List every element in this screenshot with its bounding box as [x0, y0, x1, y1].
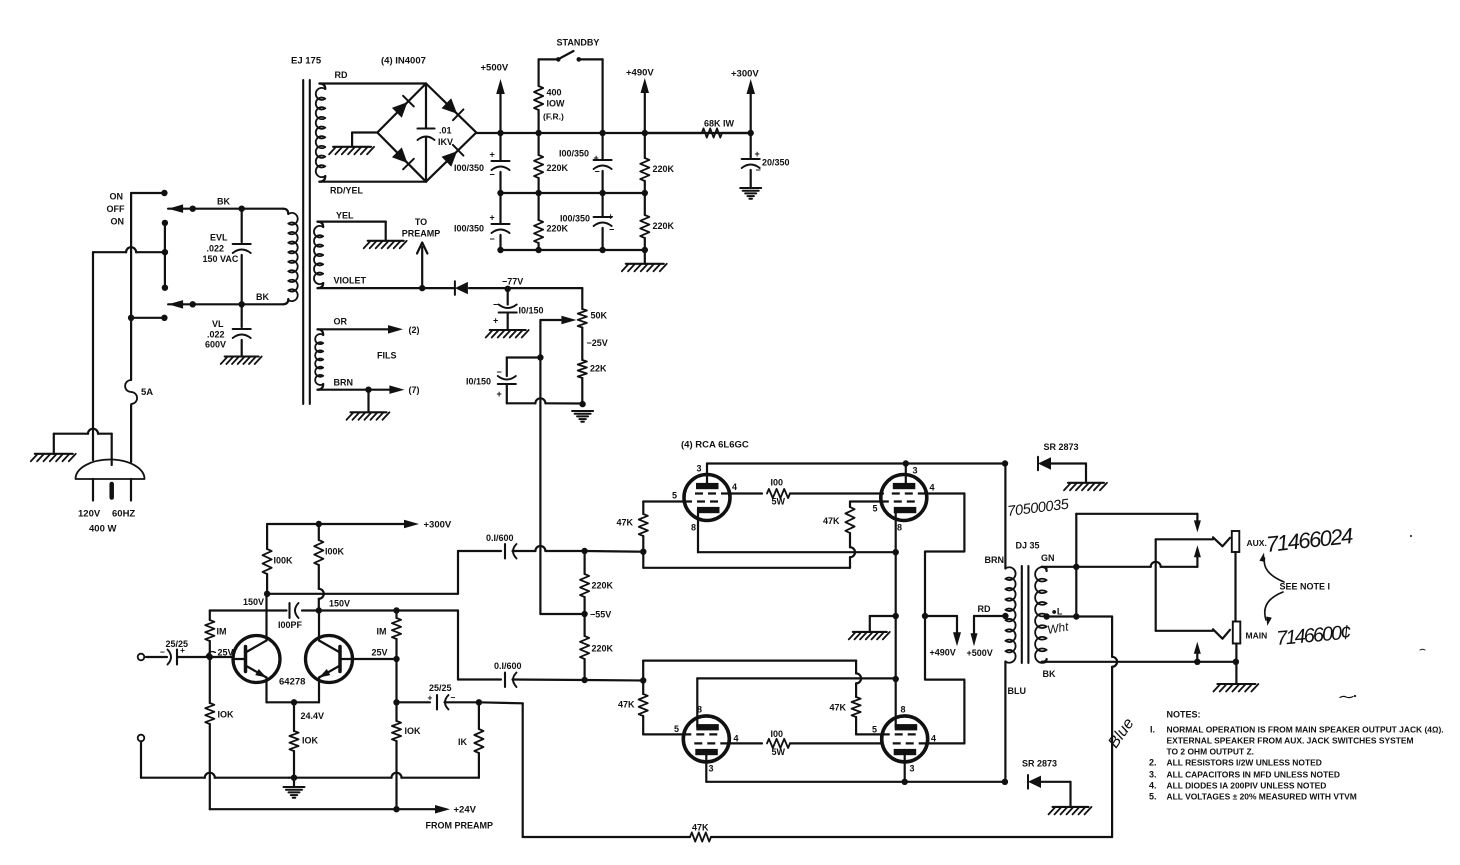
diode D7 SR2873 lower [1028, 775, 1071, 806]
wire ground to center prong [54, 429, 112, 465]
label C8 10/150 [466, 367, 502, 399]
notes text [1149, 710, 1444, 802]
svg-text:(4) IN4007: (4) IN4007 [381, 56, 426, 67]
label +500V tap [967, 648, 993, 658]
ground G5 bridge [329, 147, 374, 155]
+300V rail arrow [747, 79, 756, 136]
wire bottom filter bus [497, 247, 648, 253]
label 100PF [278, 620, 303, 630]
wire bridge minus to ground [352, 133, 377, 147]
switch S2 STANDBY [539, 51, 603, 133]
resistor R5 220K [640, 133, 649, 193]
input jack J2 [138, 735, 145, 742]
svg-text:−55V: −55V [590, 610, 611, 620]
svg-text:+: + [493, 316, 498, 326]
svg-text:8: 8 [697, 705, 702, 715]
label V4 pin 4 [931, 734, 936, 744]
svg-text:600V: 600V [205, 340, 226, 350]
svg-text:−: − [490, 234, 495, 244]
svg-text:(F.R.): (F.R.) [543, 112, 564, 122]
wire emitter junction [267, 678, 320, 706]
label V3 pin 4 [734, 734, 739, 744]
capacitor C12 0.1/600 top [458, 544, 535, 559]
label R18 220K [592, 644, 614, 654]
svg-text:(2): (2) [409, 325, 420, 335]
svg-text:I00K: I00K [274, 556, 294, 566]
label R13 10K [218, 710, 235, 720]
svg-text:22K: 22K [590, 364, 607, 374]
svg-text:8: 8 [897, 523, 902, 533]
label C4 100/350 [560, 212, 614, 235]
V3 plate lead pin3 [705, 750, 707, 782]
resistor R8 22K [578, 360, 587, 404]
arrow AUX upper contact [1194, 514, 1201, 533]
svg-text:ON: ON [110, 192, 124, 202]
svg-text:8: 8 [901, 705, 906, 715]
label R11 1M [217, 627, 227, 637]
svg-text:400 W: 400 W [89, 524, 116, 535]
label C1 100/350 [454, 150, 495, 180]
label +500V [481, 63, 509, 74]
svg-text:−: − [756, 165, 761, 175]
svg-text:EXTERNAL SPEAKER FROM AUX. J: EXTERNAL SPEAKER FROM AUX. JACK SWITCHES… [1167, 736, 1414, 746]
handwriting WHT [1046, 619, 1070, 637]
capacitor C9 100PF [290, 603, 299, 618]
svg-text:3: 3 [697, 464, 702, 474]
plug prong left [92, 479, 94, 501]
diode D1 IN4007 upper-left [392, 96, 414, 118]
plug ground prong (thick) [109, 484, 114, 498]
svg-text:BRN: BRN [334, 378, 354, 388]
label RD [335, 70, 348, 80]
bridge diamond wires [377, 84, 476, 182]
label R9 100K [274, 556, 294, 566]
label 25V left [206, 648, 234, 658]
pot R7 wiper arrow [540, 316, 576, 324]
label FILS [377, 351, 397, 361]
svg-text:IK: IK [458, 737, 468, 747]
label R25 47K [692, 823, 709, 833]
svg-text:150 VAC: 150 VAC [203, 254, 239, 264]
wire bridge top lead [319, 82, 426, 84]
V2 grid lead pin5 [850, 500, 882, 502]
svg-text:IOK: IOK [302, 736, 319, 746]
label YEL tap [1052, 607, 1063, 617]
handwriting 71466024 [1265, 523, 1354, 557]
resistor R20 100 5W [767, 489, 883, 498]
label 25V right [372, 648, 388, 658]
fuse F1 5A [125, 380, 137, 404]
handwriting 70500035 [1007, 496, 1071, 520]
scan smudge marks [1340, 535, 1425, 698]
svg-text:4: 4 [734, 734, 739, 744]
svg-text:+: + [180, 645, 185, 655]
tube V4 6L6GC [882, 716, 928, 762]
svg-text:+: + [428, 693, 433, 703]
wire left collector to top coupling [264, 551, 458, 597]
svg-text:IM: IM [217, 627, 227, 637]
label R24 47K [830, 703, 847, 713]
svg-text:50K: 50K [591, 311, 608, 321]
svg-text:SEE NOTE I: SEE NOTE I [1280, 582, 1331, 592]
svg-text:5: 5 [873, 504, 878, 514]
label 5A [141, 387, 153, 398]
label ON OFF ON [107, 192, 125, 227]
svg-text:ON: ON [111, 217, 125, 227]
svg-text:PREAMP: PREAMP [402, 229, 441, 239]
svg-text:25/25: 25/25 [429, 683, 452, 693]
wire tap feedback down [1112, 617, 1117, 838]
svg-text:I.: I. [1150, 725, 1155, 735]
wire YEL-WHT tap [1047, 613, 1113, 619]
svg-text:4: 4 [931, 734, 936, 744]
label R10 100K [325, 547, 345, 557]
BK arrow top [168, 204, 242, 213]
arrow MAIN contact [1194, 642, 1201, 662]
wire cathode trunk down [893, 552, 899, 718]
diode D6 SR2873 upper [1038, 457, 1086, 482]
svg-text:+24V: +24V [454, 805, 477, 816]
label V3 pin 5 [674, 724, 679, 734]
wire BK top to primary [242, 209, 289, 214]
svg-text:5: 5 [674, 724, 679, 734]
ground G13 D7 [1049, 807, 1092, 815]
label AUX. [1247, 538, 1267, 548]
svg-text:+300V: +300V [424, 520, 452, 531]
label -55V [590, 610, 611, 620]
label -77V [502, 277, 523, 287]
see-note arrow to AUX [1259, 553, 1284, 582]
TO PREAMP arrow [417, 243, 427, 289]
wire bottom bus [141, 773, 479, 778]
capacitor C4 100/350 [594, 193, 612, 250]
capacitor C15 VL .022 600V [233, 304, 251, 355]
jack MAIN contact [1213, 629, 1230, 638]
wire cathode bus top [698, 551, 896, 553]
label V3 pin 8 [697, 705, 702, 715]
wire VIOLET bus [318, 285, 455, 291]
label BLU [1008, 686, 1027, 696]
resistor R2 68K 1W [645, 128, 751, 137]
label VL .022 600V [205, 319, 226, 350]
svg-text:5W: 5W [772, 747, 786, 757]
svg-text:NOTES:: NOTES: [1167, 710, 1201, 720]
svg-text:−77V: −77V [502, 277, 523, 287]
diode D2 IN4007 upper-right [442, 98, 464, 120]
svg-text:220K: 220K [653, 164, 675, 174]
+24V arrow [435, 805, 450, 814]
label R4 220K [547, 224, 569, 234]
resistor R3 220K [534, 133, 543, 193]
svg-text:−: − [595, 167, 600, 177]
label +300V rail [731, 69, 759, 80]
switch S1 top contact [131, 190, 167, 196]
svg-text:220K: 220K [653, 221, 675, 231]
wire Q2 collector [318, 611, 320, 641]
resistor R19 47K [639, 502, 648, 552]
svg-text:4: 4 [930, 483, 935, 493]
capacitor C14 EVL .022 150VAC [233, 206, 251, 308]
V3 screen lead pin4 [728, 742, 762, 744]
svg-text:5W: 5W [772, 497, 786, 507]
svg-text:BK: BK [256, 292, 269, 302]
label V1 pin 4 [732, 482, 737, 492]
label SEE NOTE 1 [1280, 582, 1331, 592]
label (2) [409, 325, 420, 335]
svg-text:.01: .01 [439, 126, 452, 136]
svg-text:AUX.: AUX. [1247, 538, 1267, 548]
svg-text:.022: .022 [207, 244, 225, 254]
input jack J1 [138, 654, 145, 661]
resistor R11 1M [205, 611, 214, 658]
label (4) RCA 6L6GC [681, 440, 749, 451]
svg-text:FILS: FILS [377, 351, 397, 361]
svg-text:25V: 25V [372, 648, 388, 658]
svg-text:BRN: BRN [985, 555, 1005, 565]
svg-text:+500V: +500V [967, 648, 993, 658]
svg-text:+490V: +490V [930, 648, 956, 658]
capacitor C8 10/150 [498, 358, 541, 404]
label V4 pin 8 [901, 705, 906, 715]
svg-text:4: 4 [732, 482, 737, 492]
label V2 pin 8 [897, 523, 902, 533]
+300V arrow driver [404, 520, 419, 528]
svg-text:220K: 220K [592, 644, 614, 654]
ground G6 filters [622, 250, 667, 271]
svg-text:+300V: +300V [731, 69, 759, 80]
hop R10 over collector line [319, 589, 324, 599]
label (7) [409, 385, 420, 395]
svg-text:−: − [493, 300, 498, 310]
ground G3 YEL [364, 241, 407, 249]
wire grid bus 2 [643, 552, 850, 568]
svg-text:ALL VOLTAGES ± 20% MEASURED: ALL VOLTAGES ± 20% MEASURED WITH VTVM [1167, 791, 1357, 801]
label V2 pin 5 [873, 504, 878, 514]
label C3 100/350 [559, 149, 600, 177]
label R22 47K [618, 700, 635, 710]
V4 cathode lead pin8 [895, 718, 897, 727]
wire AUX-MAIN link [1156, 539, 1213, 631]
arrow AUX lower contact [1194, 545, 1201, 567]
svg-text:NORMAL OPERATION IS FROM MA: NORMAL OPERATION IS FROM MAIN SPEAKER OU… [1167, 725, 1444, 735]
svg-text:5: 5 [672, 491, 677, 501]
plug prong right [130, 479, 132, 501]
wire bias feed to -55V node [540, 358, 584, 615]
resistor R16 1K [474, 702, 483, 777]
svg-text:5.: 5. [1149, 791, 1157, 801]
svg-text:OR: OR [334, 317, 348, 327]
svg-text:.022: .022 [207, 330, 225, 340]
tube V3 6L6GC [683, 716, 729, 762]
resistor R4 220K [534, 193, 543, 250]
svg-text:GN: GN [1041, 553, 1055, 563]
svg-text:I00/350: I00/350 [454, 163, 484, 173]
resistor R15 10K tail [289, 702, 298, 781]
svg-text:−: − [451, 693, 456, 703]
svg-text:TO: TO [415, 217, 427, 227]
label DJ 35 [1016, 541, 1040, 551]
svg-text:SR 2873: SR 2873 [1022, 759, 1057, 769]
label C7 10/150 [493, 300, 544, 326]
label V4 pin 3 [910, 764, 915, 774]
wire HV bus [476, 130, 750, 136]
label RD/YEL [330, 186, 364, 196]
handwriting 7146600c [1276, 622, 1352, 650]
svg-text:(7): (7) [409, 385, 420, 395]
transistor Q1 64278 [233, 636, 280, 683]
svg-text:+: + [608, 212, 613, 222]
jack AUX contact [1213, 537, 1230, 546]
jack MAIN body [1233, 622, 1241, 644]
ground G9 bias [572, 411, 593, 422]
svg-text:47K: 47K [692, 823, 709, 833]
label +300V driver [424, 520, 452, 531]
V3 grid lead pin5 [643, 733, 684, 735]
wire screen supply staircase [922, 494, 965, 744]
svg-text:EJ 175: EJ 175 [291, 56, 322, 67]
label V1 pin 5 [672, 491, 677, 501]
+500V tap arrow [971, 616, 1006, 646]
wire right collector node [316, 599, 322, 614]
V4 grid lead pin5 [856, 733, 883, 735]
ground G7 20/350 [740, 188, 761, 199]
svg-text:5A: 5A [141, 387, 153, 398]
svg-text:150V: 150V [243, 597, 264, 607]
label 50K [591, 311, 608, 321]
V2 cathode lead pin8 [893, 509, 899, 555]
resistor R18 220K [580, 614, 589, 680]
V3 cathode lead pin8 [696, 678, 698, 727]
resistor R9 100K [263, 524, 272, 594]
transformer T2 core [1022, 566, 1029, 663]
resistor R10 100K [314, 524, 323, 589]
capacitor C11 25/25 [397, 695, 483, 710]
svg-text:I00/350: I00/350 [559, 149, 589, 159]
svg-text:68K IW: 68K IW [704, 119, 735, 129]
svg-text:20/350: 20/350 [762, 158, 790, 168]
label MAIN [1246, 631, 1268, 641]
label V1 pin 8 [691, 523, 696, 533]
svg-text:0.I/600: 0.I/600 [494, 661, 522, 671]
wire AC to switch mid [93, 247, 165, 252]
tube V1 6L6GC [684, 475, 730, 521]
svg-text:BK: BK [217, 197, 230, 207]
label BK top [217, 197, 230, 207]
V2 plate lead pin3 [905, 464, 907, 487]
capacitor C7 10/150 [499, 289, 517, 329]
resistor R24 47K [852, 661, 862, 735]
label .01 1KV [438, 126, 453, 148]
label YEL [336, 211, 354, 221]
wire GN hop to arrow [1151, 562, 1198, 567]
label C11 25/25 [428, 683, 456, 703]
resistor R23 100 5W [767, 739, 883, 748]
svg-text:MAIN: MAIN [1246, 631, 1268, 641]
wire Q1 base [184, 654, 233, 660]
wire cathode ground stub [870, 616, 896, 631]
label R23 100 5W [771, 729, 786, 757]
capacitor C3 100/350 [594, 133, 612, 193]
svg-text:I00PF: I00PF [278, 620, 303, 630]
V1 plate lead pin3 [706, 464, 708, 487]
svg-text:3: 3 [910, 764, 915, 774]
svg-text:IOK: IOK [218, 710, 235, 720]
label R21 47K [823, 516, 840, 526]
V4 screen lead pin4 [927, 742, 965, 744]
svg-text:IOW: IOW [547, 99, 566, 109]
svg-text:5: 5 [872, 725, 877, 735]
svg-text:BK: BK [1043, 669, 1056, 679]
handwriting Blue [1105, 715, 1137, 751]
svg-text:EVL: EVL [210, 233, 228, 243]
label BK secondary [1043, 669, 1056, 679]
label R14 10K [405, 726, 422, 736]
wire +24V line [210, 806, 435, 812]
wire +300V bus driver [267, 521, 405, 527]
label C12 0.1/600 [486, 533, 514, 543]
V1 screen lead pin4 [729, 492, 762, 494]
label V2 pin 4 [930, 483, 935, 493]
svg-text:IOK: IOK [405, 726, 422, 736]
svg-text:150V: 150V [329, 599, 350, 609]
ground G4 FILS [347, 390, 390, 420]
jack AUX body [1232, 531, 1240, 552]
power plug PL1 [76, 460, 145, 480]
label BK bottom [256, 292, 269, 302]
transformer T1 core [303, 80, 310, 404]
svg-text:RD/YEL: RD/YEL [330, 186, 364, 196]
wire BK lead [1042, 659, 1240, 665]
ground G1 AC safety [31, 434, 76, 462]
label EJ175 [291, 56, 322, 67]
wire lower grid bus [643, 661, 856, 681]
label 120V 60HZ [78, 509, 135, 520]
wire wiper feed down [537, 320, 543, 361]
label C6 20/350 [755, 149, 790, 175]
resistor R17 220K [580, 551, 589, 617]
wire top grid line [535, 546, 646, 555]
ground G2 VL [221, 357, 262, 365]
label 24.4V [301, 711, 325, 721]
svg-text:DJ 35: DJ 35 [1016, 541, 1040, 551]
svg-text:+490V: +490V [626, 68, 654, 79]
resistor R25 47K feedback [523, 832, 1112, 841]
svg-text:2.: 2. [1149, 757, 1157, 767]
capacitor C5 .01 1KV [418, 84, 435, 182]
svg-text:4.: 4. [1149, 780, 1157, 790]
label OR [334, 317, 348, 327]
svg-text:ALL DIODES IA 200PIV UNLES: ALL DIODES IA 200PIV UNLESS NOTED [1167, 780, 1327, 790]
svg-text:IKV: IKV [438, 137, 453, 147]
transformer T2 primary winding [1002, 567, 1015, 662]
svg-text:24.4V: 24.4V [301, 711, 325, 721]
label R3 220K [547, 163, 569, 173]
svg-text:+: + [490, 213, 495, 223]
wire AUX switch feed [1076, 514, 1197, 617]
svg-text:120V: 120V [78, 509, 101, 520]
wire J2 down [140, 741, 142, 777]
svg-text:60HZ: 60HZ [112, 509, 135, 520]
svg-text:+: + [755, 149, 760, 159]
svg-text:RD: RD [335, 70, 348, 80]
svg-text:−: − [497, 367, 502, 377]
label R5 220K [653, 164, 675, 174]
label GN [1041, 553, 1055, 563]
ground G12 D6 [1064, 483, 1107, 491]
potentiometer R7 50K [578, 288, 587, 360]
svg-text:I00/350: I00/350 [560, 214, 590, 224]
wire AC line right [130, 405, 132, 462]
